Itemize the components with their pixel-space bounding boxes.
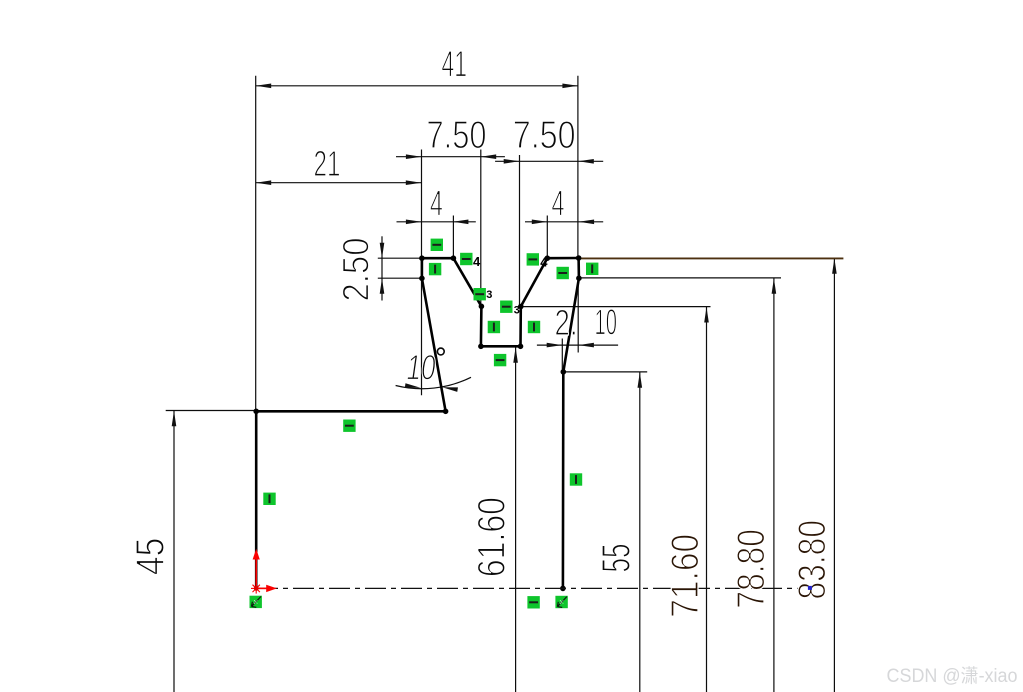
dim line 2.10 [537,344,618,346]
origin star [251,583,261,593]
svg-text:2.50: 2.50 [336,238,377,302]
profile right short vertical [577,258,580,278]
svg-text:61.60: 61.60 [471,497,514,577]
dim line 41 [256,85,578,87]
marker vertical right line [570,473,582,485]
ext line x=421.5 (21-right, 7.50-left, 4-left, angle ref) [421,150,423,396]
marker horizontal shelf [343,420,355,432]
marker equal4 right [527,253,539,265]
profile top-right horizontal 4 [547,257,578,260]
ext line x=578.2 (2.10 right) [577,279,579,353]
angle arc arrows [405,383,421,390]
ext line x=547.3 (4#2 left) [546,216,548,256]
svg-text:21: 21 [314,143,341,184]
dim line 78.80 vertical [773,278,775,692]
svg-text:55: 55 [595,544,639,573]
dim line 21 [256,182,422,184]
svg-text:45: 45 [129,538,173,576]
45 top arrow [172,411,177,427]
ext line y=258.2 (2.50 top) [378,257,422,259]
profile left vertical [255,411,258,588]
svg-text:7.50: 7.50 [513,114,576,157]
dim line 7.50#1 [396,156,505,158]
marker vertical notch right [528,321,540,333]
78.80 arrow [772,278,777,294]
blue endpoint [808,586,812,590]
dim line 71.60 vertical [706,307,708,692]
svg-text:4: 4 [552,183,565,224]
marker equal3 right [500,301,512,313]
dim line 2.50 vertical [381,236,383,300]
profile right slant 2.10 [563,278,579,372]
ext line x=577.9 (41-right) [577,76,579,256]
svg-text:CSDN @潇-xiao: CSDN @潇-xiao [887,665,1018,687]
ext line x=562.3 (2.10 left) [561,339,563,372]
marker equal3 left slant [474,288,486,300]
marker fixed right bottom [555,596,567,608]
marker fixed at origin [250,596,262,608]
marker vertical (left short seg) [429,263,441,275]
dim line 61.60 vertical [515,347,517,692]
marker horizontal notch bottom [494,354,506,366]
marker vertical (right of profile) [586,263,598,275]
profile notch right slant [521,258,548,306]
ext line y=306.6 (71.60 top) [521,306,710,308]
svg-text:71.60: 71.60 [664,534,707,618]
angle arc 10deg [396,377,471,388]
centerline dash-dot [257,587,798,589]
svg-text:83.80: 83.80 [791,520,834,600]
marker vertical left line [263,493,275,505]
profile notch left slant [453,258,481,306]
ext line x=480.8 (7.50#1 right) [480,150,482,306]
marker horizontal (below right top seg) [557,267,569,279]
dim line 55 vertical [639,372,641,692]
ext line x=453.4 (4#1 right) [452,216,454,256]
svg-text:4: 4 [430,183,443,224]
profile bottom shelf horizontal [256,410,445,413]
svg-text:3: 3 [486,289,492,301]
profile notch bottom [481,345,521,348]
2.10 arrows [547,343,563,348]
svg-text:10: 10 [407,349,436,388]
svg-text:2.: 2. [555,302,578,343]
83.80 arrow [832,258,837,274]
svg-text:3: 3 [514,304,520,316]
profile notch right vertical [519,307,522,347]
marker equal at bottom [527,596,539,608]
svg-text:4: 4 [540,255,548,270]
4#2 arrows [532,220,548,225]
svg-text:4: 4 [473,254,481,269]
dim line 4#2 [525,221,603,223]
profile notch left vertical [480,306,483,346]
4#1 arrows [406,220,422,225]
svg-text:10: 10 [595,302,618,343]
ext line y=410.5 (45 top) [166,410,257,412]
71.60 arrow [704,307,709,323]
61.60 arrow [513,347,518,363]
X axis [256,587,266,589]
Y axis [255,559,257,589]
dim line 4#1 [397,221,476,223]
55 arrow [638,372,643,388]
2.50 arrows [380,243,385,259]
vertex points [253,255,581,591]
svg-text:41: 41 [442,44,468,85]
7.50#1 arrows [406,154,422,159]
svg-text:7.50: 7.50 [427,114,487,157]
svg-text:78.80: 78.80 [730,529,773,609]
ext line y=278.2 (2.50 bottom) [378,277,422,279]
profile right vertical [562,372,565,589]
21 arrows [256,180,272,185]
profile 10deg slant [422,278,446,411]
7.50#2 arrows [504,159,520,164]
profile top-left horizontal 4 [422,257,454,260]
41 arrows [256,84,272,89]
ext line y=371.9 (55 top) [563,371,647,373]
ext line y=277.9 (78.80 top) [579,277,781,279]
ext line x=255.7 (41-left,21-left) [255,76,257,411]
dim line 45 vertical [173,411,175,692]
profile short vertical 2.50 [421,258,424,278]
marker horizontal (above top-left seg) [431,239,443,251]
marker equal4 left [460,253,472,265]
dim line 83.80 vertical [833,258,835,692]
marker vertical notch left [488,321,500,333]
ext line x=519.5 (7.50#2 left) [519,155,521,306]
dim line 7.50#2 [495,160,603,162]
ext line y=257.9 (83.80 top, brown) [579,257,844,259]
